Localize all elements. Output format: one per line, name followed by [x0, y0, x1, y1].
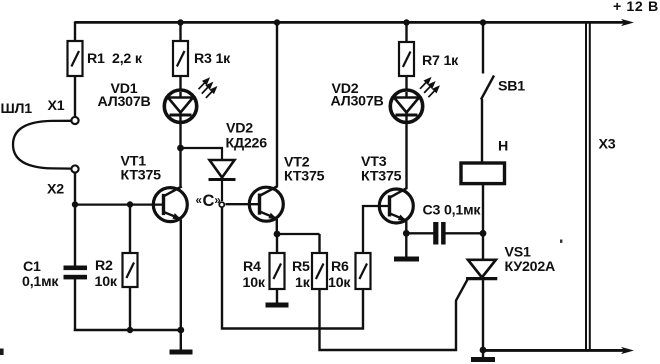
- svg-text:+ 12 В: + 12 В: [613, 0, 659, 15]
- wire VT1 base: [75, 203, 164, 205]
- wire VT3 emitter down: [405, 221, 407, 233]
- svg-text:R3 1к: R3 1к: [194, 51, 231, 67]
- svg-text:С1: С1: [23, 259, 41, 275]
- svg-text:SB1: SB1: [498, 79, 525, 95]
- resistor R4: [270, 253, 285, 289]
- transistor VT3: [379, 188, 413, 223]
- junction bottom wire / VT1 emitter: [177, 327, 184, 334]
- resistor R1: [68, 41, 83, 76]
- svg-text:Н: Н: [498, 139, 508, 155]
- junction top rail / SB1: [480, 19, 486, 25]
- jumper loop ШЛ1: [13, 121, 72, 169]
- ground at VS1: [471, 350, 495, 362]
- junction bottom rail / VS1: [480, 347, 487, 354]
- wire node C to VT2 base: [226, 203, 260, 205]
- svg-text:»: »: [214, 195, 220, 207]
- svg-text:«: «: [196, 195, 202, 207]
- label R2 10к: [95, 258, 118, 290]
- wire C3 to VS1 anode line: [445, 232, 483, 234]
- label VD2 КД226: [226, 121, 268, 152]
- svg-text:R2: R2: [95, 258, 113, 274]
- wire rail to R3: [179, 23, 181, 42]
- svg-text:КД226: КД226: [226, 136, 268, 152]
- speck artifact: [560, 240, 562, 243]
- label C1 0,1мк: [22, 259, 59, 290]
- wire +12V top rail: [75, 19, 634, 26]
- svg-text:R6: R6: [331, 259, 349, 275]
- wire R5 top: [318, 234, 320, 253]
- label «С»: [196, 192, 221, 210]
- junction top rail / R3: [177, 19, 183, 25]
- label VT1 КТ375: [121, 154, 162, 184]
- node «C»: [219, 202, 224, 207]
- edge artifact bottom left: [0, 349, 4, 356]
- svg-text:X1: X1: [48, 98, 65, 114]
- wire R1 to X1: [74, 76, 76, 117]
- junction VD1 / VD2 branch: [177, 145, 184, 152]
- wire VT1 emitter down: [180, 220, 182, 331]
- connector X3: [586, 23, 590, 351]
- thyristor VS1: [466, 260, 497, 279]
- wire VD1 to VT1 collector: [179, 122, 181, 186]
- wire VT3 emitter to C3: [406, 232, 433, 234]
- label VS1 КУ202А: [505, 245, 556, 276]
- svg-text:С3 0,1мк: С3 0,1мк: [423, 203, 482, 219]
- ground at R4: [266, 289, 289, 308]
- transistor VT1: [153, 186, 187, 221]
- LED VD2 emission arrows: [420, 79, 438, 98]
- wire to diode VD2: [181, 148, 223, 160]
- svg-text:10к: 10к: [243, 275, 266, 291]
- resistor R5: [312, 253, 327, 289]
- wire R6 top to VT3 base: [363, 206, 390, 253]
- svg-text:10к: 10к: [328, 275, 351, 291]
- svg-text:КТ375: КТ375: [121, 168, 162, 184]
- switch SB1 blade: [481, 76, 494, 100]
- label R5 1к: [292, 259, 311, 291]
- label R6 10к: [328, 259, 351, 291]
- wire VT2 collector up: [276, 23, 278, 187]
- LED VD1: [164, 90, 196, 122]
- relay H box: [461, 163, 505, 184]
- resistor R3: [173, 41, 188, 76]
- ground at VT3 emitter: [394, 233, 419, 261]
- junction VT3 emitter / C3 / ground: [403, 230, 410, 237]
- svg-text:R4: R4: [243, 259, 261, 275]
- svg-text:VD2: VD2: [226, 121, 253, 137]
- wire VT2 emitter down: [276, 219, 278, 234]
- wire node C down to R6: [222, 207, 363, 329]
- LED VD1 emission arrows: [199, 79, 216, 98]
- label VT2 КТ375: [284, 155, 325, 185]
- wire R4 top: [276, 234, 278, 253]
- label VT3 КТ375: [361, 154, 402, 185]
- wire R7 to LED: [405, 76, 407, 92]
- svg-text:X2: X2: [47, 182, 64, 198]
- wire R3 to VD1: [179, 76, 181, 92]
- ground at VT1 emitter: [170, 330, 193, 355]
- svg-text:АЛ307В: АЛ307В: [331, 94, 384, 110]
- svg-text:КТ375: КТ375: [284, 169, 325, 185]
- wire R2 bottom: [129, 287, 131, 330]
- wire rail to R7: [405, 23, 407, 43]
- wire bottom left (C1/R2 to VT1 emitter): [74, 329, 181, 331]
- junction X2 line / VT1 base: [72, 201, 78, 207]
- junction top rail / R7: [403, 19, 409, 25]
- wire R2 top: [129, 205, 131, 254]
- junction C3 / VS1 anode: [480, 230, 487, 237]
- svg-text:0,1мк: 0,1мк: [22, 274, 59, 290]
- wire H to C3 junction: [482, 184, 484, 260]
- svg-text:10к: 10к: [95, 274, 118, 290]
- wire R5 bottom to VS1 gate: [320, 280, 468, 351]
- junction top rail / VT2 collector: [274, 19, 280, 25]
- capacitor C3: [433, 222, 445, 245]
- label VD1 АЛ307В: [98, 81, 151, 110]
- junction base wire / R2: [127, 201, 133, 207]
- transistor VT2: [249, 186, 283, 221]
- wire SB1 to relay H: [481, 99, 483, 163]
- svg-text:С: С: [203, 192, 215, 210]
- wire LED to VT3 collector: [405, 122, 407, 188]
- wire rail to R1: [74, 21, 76, 41]
- wire rail to SB1: [482, 23, 484, 74]
- svg-text:ШЛ1: ШЛ1: [1, 101, 33, 117]
- svg-text:R5: R5: [292, 259, 310, 275]
- resistor R7: [399, 42, 414, 76]
- wire X2 to C1: [74, 172, 76, 266]
- resistor R6: [356, 253, 371, 289]
- LED VD2 АЛ307В: [390, 90, 422, 122]
- svg-text:АЛ307В: АЛ307В: [98, 94, 151, 110]
- svg-text:R1: R1: [87, 51, 105, 67]
- svg-text:R7 1к: R7 1к: [422, 53, 459, 69]
- resistor R2: [123, 253, 138, 287]
- terminal X2: [71, 165, 78, 172]
- terminal X1: [71, 117, 78, 124]
- capacitor C1: [64, 266, 88, 280]
- svg-text:Х3: Х3: [599, 137, 616, 153]
- wire emitter junction to R5: [277, 233, 320, 235]
- wire VD2 to node C: [221, 180, 223, 202]
- label VD2 АЛ307В: [331, 81, 384, 110]
- diode VD2 КД226: [209, 160, 236, 180]
- svg-text:1к: 1к: [295, 275, 311, 291]
- svg-text:КУ202А: КУ202А: [505, 259, 556, 275]
- svg-text:КТ375: КТ375: [361, 169, 402, 185]
- wire C1 to bottom: [74, 279, 76, 331]
- wire bottom rail: [483, 347, 634, 354]
- junction bottom wire / R2: [127, 327, 133, 333]
- wire VS1 cathode to bottom rail: [482, 279, 484, 351]
- junction VT2 emitter / R4 R5: [274, 231, 281, 238]
- svg-text:2,2 к: 2,2 к: [112, 51, 143, 67]
- label R4 10к: [243, 259, 266, 291]
